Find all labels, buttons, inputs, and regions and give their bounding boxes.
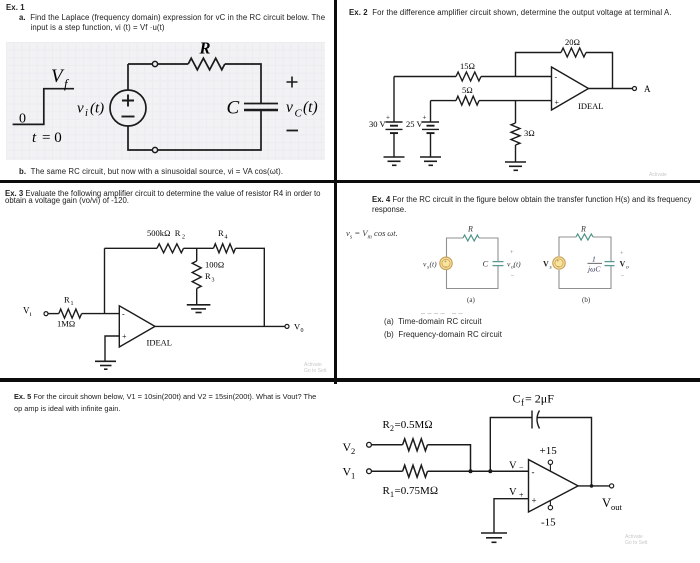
svg-text:R: R — [467, 225, 473, 234]
svg-text:+: + — [423, 114, 427, 122]
battery 30V — [386, 122, 403, 133]
wire battery 30V to ground — [393, 133, 395, 156]
svg-text:5Ω: 5Ω — [462, 85, 473, 95]
op-amp U1 — [552, 67, 589, 110]
feedback top wire to R2 — [105, 247, 158, 249]
wire V2 to R2 — [371, 444, 402, 446]
output wire — [155, 325, 285, 327]
wire inverting input from 30V branch — [394, 76, 456, 78]
power -15 pin — [548, 505, 552, 509]
wire R1 to op-amp — [82, 313, 120, 315]
svg-text:R: R — [580, 225, 586, 234]
svg-text:(t): (t) — [430, 260, 438, 269]
wire 30V to 15ohm — [393, 77, 395, 122]
wire capacitor down to bottom — [158, 110, 261, 150]
feedback left vertical — [490, 418, 532, 472]
junction node output feedback — [590, 484, 594, 488]
svg-text:2: 2 — [390, 424, 394, 433]
capacitor plus sign — [287, 77, 298, 88]
resistor R (a) — [463, 235, 479, 241]
resistor R4 — [214, 244, 236, 253]
wire Vi to R1 — [48, 313, 59, 315]
output terminal Vo — [285, 324, 289, 328]
feedback wire right of Cf — [538, 418, 592, 486]
svg-text:-: - — [122, 310, 125, 319]
wire 15ohm to op-amp — [481, 76, 552, 78]
wire noninverting to ground — [494, 499, 529, 533]
resistor 3ohm — [511, 123, 520, 145]
svg-text:t: t — [32, 130, 37, 146]
wire battery 25V to ground — [430, 133, 432, 156]
svg-text:V: V — [509, 487, 517, 498]
resistor R — [188, 58, 225, 70]
node top terminal — [152, 61, 157, 66]
svg-text:IDEAL: IDEAL — [578, 101, 604, 111]
label vi(t) — [77, 101, 104, 120]
wire 25V to 5ohm — [430, 101, 432, 122]
ground below 25V — [420, 157, 441, 165]
capacitor minus sign — [287, 130, 299, 132]
svg-text:20Ω: 20Ω — [565, 37, 580, 47]
svg-text:0: 0 — [19, 112, 26, 127]
label Vf — [51, 66, 70, 91]
ground below 3ohm — [505, 162, 526, 170]
svg-text:f: f — [521, 398, 524, 408]
svg-text:=0.75MΩ: =0.75MΩ — [395, 485, 439, 497]
svg-text:3Ω: 3Ω — [524, 128, 535, 138]
output wire — [578, 485, 610, 487]
resistor R1 — [403, 465, 428, 477]
svg-text:C: C — [513, 392, 521, 406]
divider horizontal between middle and bottom rows — [0, 378, 700, 382]
step waveform input graph — [13, 89, 74, 125]
svg-text:1: 1 — [351, 471, 355, 481]
ground — [481, 533, 507, 542]
wire noninverting input from 25V branch — [431, 100, 457, 102]
svg-text:R: R — [64, 295, 70, 305]
ground below op-amp — [95, 361, 116, 369]
svg-text:100Ω: 100Ω — [205, 260, 224, 270]
svg-text:v: v — [286, 99, 293, 116]
svg-text:3: 3 — [212, 278, 215, 284]
svg-text:0: 0 — [301, 328, 304, 334]
svg-text:1MΩ: 1MΩ — [57, 319, 75, 329]
svg-text:V: V — [543, 260, 549, 269]
svg-text:R: R — [199, 39, 211, 58]
svg-text:25 V: 25 V — [406, 119, 423, 129]
power +15 pin — [548, 460, 552, 464]
voltage source vi(t) — [110, 90, 146, 126]
svg-text:IDEAL: IDEAL — [147, 338, 173, 348]
wire R3 to ground — [196, 289, 198, 305]
svg-text:−: − — [519, 463, 524, 472]
svg-text:(t): (t) — [303, 99, 318, 116]
svg-text:+15: +15 — [540, 445, 558, 457]
junction node V2 branch — [469, 469, 473, 473]
svg-text:V: V — [602, 496, 611, 510]
svg-text:= 2μF: = 2μF — [525, 392, 554, 406]
label t = 0 — [32, 130, 62, 146]
svg-text:+: + — [444, 260, 447, 265]
output wire to terminal A — [589, 88, 633, 90]
resistor R1 — [59, 309, 82, 318]
resistor 20ohm — [561, 48, 586, 57]
label R — [199, 39, 211, 58]
op-amp U1 — [529, 460, 579, 512]
svg-text:jωC: jωC — [587, 265, 601, 274]
ground below R3 — [187, 305, 211, 313]
op-amp U1 — [119, 306, 155, 347]
svg-text:1: 1 — [71, 301, 74, 307]
svg-text:−: − — [557, 265, 560, 270]
svg-text:+: + — [122, 332, 127, 341]
capacitor C (a) — [493, 262, 504, 266]
terminal V2 — [367, 442, 372, 447]
svg-text:2: 2 — [351, 446, 355, 456]
svg-text:R: R — [218, 228, 224, 238]
svg-text:s: s — [550, 265, 552, 271]
wire noninverting node down to 3ohm — [515, 101, 517, 123]
svg-text:(a): (a) — [467, 296, 475, 304]
svg-text:500kΩ R: 500kΩ R — [147, 228, 181, 238]
svg-text:30 V: 30 V — [369, 119, 386, 129]
svg-text:i: i — [85, 108, 88, 119]
capacitor Cf — [532, 411, 540, 429]
svg-text:1: 1 — [390, 490, 394, 499]
svg-text:i: i — [30, 311, 32, 318]
svg-text:−: − — [511, 273, 515, 280]
svg-text:V: V — [51, 66, 65, 87]
svg-text:4: 4 — [225, 235, 228, 241]
resistor 5ohm — [456, 96, 479, 105]
svg-text:C: C — [483, 259, 489, 269]
terminal V1 — [367, 469, 372, 474]
wire resistor to right corner and down — [225, 64, 261, 103]
svg-text:2: 2 — [182, 235, 185, 241]
label vC(t) — [286, 99, 318, 120]
label 0 — [19, 112, 26, 127]
source vs(t) (a) — [440, 257, 452, 269]
svg-text:(b): (b) — [582, 296, 591, 304]
svg-text:(t): (t) — [514, 260, 522, 269]
Ex1 graph-paper background — [6, 42, 325, 160]
wire noninverting input to ground — [105, 336, 119, 361]
label C — [227, 98, 240, 119]
svg-text:+: + — [620, 250, 624, 257]
wire R2 to R4 — [184, 247, 214, 249]
svg-text:−: − — [445, 266, 448, 271]
svg-text:+: + — [510, 249, 514, 256]
wire R2 to junction and down — [428, 445, 471, 471]
wire top to resistor — [158, 63, 189, 65]
divider horizontal between top and middle rows — [0, 180, 700, 184]
feedback wire with 20ohm — [516, 53, 562, 77]
wire junction down to R3 — [196, 248, 198, 261]
svg-text:o: o — [626, 265, 629, 271]
svg-text:= 0: = 0 — [42, 130, 62, 146]
svg-text:=0.5MΩ: =0.5MΩ — [395, 419, 433, 431]
svg-text:-: - — [555, 73, 558, 82]
wire bottom left segment — [128, 126, 153, 150]
svg-text:R: R — [205, 271, 211, 281]
battery 25V — [422, 122, 439, 133]
divider vertical between quadrants — [334, 0, 337, 384]
svg-text:-: - — [532, 467, 535, 477]
junction node feedback — [488, 469, 492, 473]
svg-text:+: + — [386, 114, 390, 122]
svg-text:+: + — [557, 260, 560, 265]
resistor R2 — [403, 439, 428, 451]
svg-text:v: v — [77, 101, 84, 117]
resistor R (b) — [576, 234, 593, 240]
svg-text:(t): (t) — [90, 101, 104, 117]
svg-text:V: V — [620, 260, 626, 269]
resistor 15ohm — [456, 72, 481, 81]
svg-text:1: 1 — [592, 255, 596, 264]
wire R4 to right corner down — [236, 248, 265, 326]
svg-text:+: + — [532, 496, 537, 506]
wire V1 to R1 — [371, 470, 402, 472]
wire source to top — [127, 64, 129, 90]
capacitor C plates — [244, 104, 278, 111]
feedback left vertical wire — [104, 248, 106, 313]
feedback wire right side down to output — [586, 53, 613, 89]
wire R1 junction to op-amp — [428, 470, 529, 472]
circuit (b) loop — [559, 237, 611, 289]
wire top left segment — [128, 63, 153, 65]
source Vs (b) — [553, 257, 565, 269]
svg-text:C: C — [227, 98, 240, 119]
svg-text:15Ω: 15Ω — [460, 61, 475, 71]
svg-text:+: + — [555, 98, 560, 107]
wire 5ohm to op-amp — [479, 100, 552, 102]
svg-text:out: out — [611, 502, 623, 512]
svg-text:A: A — [644, 84, 651, 94]
input terminal Vi — [44, 312, 48, 316]
terminal A node — [633, 87, 637, 91]
capacitor plates (b) — [605, 262, 615, 266]
resistor R2 — [157, 244, 184, 253]
svg-text:-15: -15 — [541, 517, 556, 529]
svg-text:−: − — [621, 273, 625, 280]
output terminal — [610, 484, 614, 488]
svg-text:V: V — [509, 461, 517, 472]
ground below 30V — [384, 157, 405, 165]
node bottom terminal — [152, 147, 157, 152]
wire 3ohm to ground — [515, 145, 517, 162]
circuit (a) loop — [447, 238, 499, 289]
svg-text:C: C — [295, 108, 303, 120]
resistor R3 — [192, 261, 201, 289]
stray dashed mark — [421, 313, 464, 315]
